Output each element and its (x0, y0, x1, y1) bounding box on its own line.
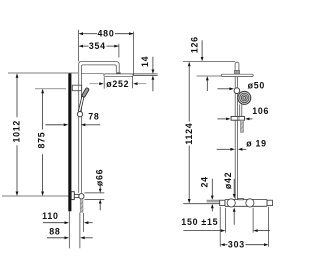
svg-text:ø252: ø252 (106, 79, 129, 89)
svg-text:875: 875 (37, 132, 47, 149)
extension lines 150±15 (224, 208, 226, 233)
mixer bar valve bumps (227, 199, 235, 207)
head stem (side view) (234, 62, 239, 74)
dimension ø42 (223, 172, 236, 225)
hose stub below bracket (hatched) (240, 120, 243, 132)
supply stub lines (207, 200, 220, 202)
mixing valve (front view) (71, 192, 84, 200)
extension line valve centre (83, 213, 85, 232)
shower head disc (front view) (104, 74, 133, 76)
hand shower holder knob (234, 88, 240, 94)
wall bracket (side view) (231, 116, 244, 120)
svg-text:1124: 1124 (184, 123, 194, 145)
svg-text:303: 303 (228, 240, 245, 250)
dimension 354 (79, 41, 119, 51)
dimension 126 (190, 36, 209, 91)
wire top reference line (1012 datum) (8, 72, 78, 74)
dimension 1124 (184, 62, 194, 204)
wire head bottom reference line (197, 75, 222, 77)
dimension 24 (199, 176, 213, 211)
dimension 480 (79, 29, 134, 39)
dimension 1012 (12, 73, 22, 196)
dimension 110 (42, 211, 93, 224)
extension line wall centre (68, 212, 70, 249)
valve outlet stub (hatched) (80, 199, 83, 212)
dimension 303 (220, 240, 268, 250)
svg-text:78: 78 (88, 112, 99, 122)
mixer bar body (225, 200, 267, 207)
shower head connector nut (116, 72, 120, 74)
dimension ø19 (217, 139, 267, 151)
shower arm (79, 62, 120, 73)
riser pipe (79, 64, 82, 193)
glide bar holder bracket (72, 85, 81, 91)
dimension ø66 (85, 169, 105, 211)
svg-text:480: 480 (98, 29, 115, 39)
label ø50 (217, 80, 265, 90)
svg-text:ø42: ø42 (223, 172, 233, 189)
svg-text:126: 126 (190, 36, 200, 53)
hand shower (78, 87, 89, 111)
shower head disc (side view) (221, 74, 253, 76)
mixer bar left cap (220, 200, 225, 205)
wire supply datum line (183, 203, 219, 205)
dimension 875 (37, 89, 47, 196)
vertical pipe (side view) (235, 77, 237, 200)
extension lines 303 (219, 207, 221, 247)
dimension 106 (217, 106, 269, 120)
svg-text:354: 354 (89, 41, 106, 51)
extension line 480/354 left (78, 30, 80, 62)
wire bottom reference line (valve datum) (2, 195, 69, 197)
extension line 480 right (133, 32, 135, 76)
svg-text:24: 24 (199, 176, 209, 187)
wire 875 reference line (35, 88, 66, 90)
dimension ø252 (90, 77, 147, 89)
svg-text:110: 110 (42, 211, 58, 221)
svg-text:ø50: ø50 (248, 80, 265, 90)
dimension 150 ±15 (181, 217, 269, 232)
dimension 88 (47, 226, 93, 239)
svg-text:106: 106 (252, 106, 269, 116)
mixer top connector bump (238, 199, 244, 200)
dimension 14 (head thickness) (134, 56, 158, 91)
hose from hand shower (240, 105, 242, 117)
svg-text:1012: 1012 (12, 120, 22, 143)
label 78 (45, 112, 100, 127)
svg-text:ø66: ø66 (95, 169, 105, 186)
svg-text:150 ±15: 150 ±15 (181, 217, 218, 227)
extension line 354 right (118, 44, 120, 58)
wall (68, 73, 71, 211)
svg-text:88: 88 (49, 226, 60, 236)
extension line pipe centre (79, 213, 81, 249)
wire top reference line (183, 61, 235, 63)
mixer bar right cap (267, 200, 272, 205)
svg-text:ø 19: ø 19 (246, 139, 267, 149)
hose connector circle (77, 112, 82, 117)
svg-text:14: 14 (140, 56, 150, 67)
hand shower head (side view, spiral face) (238, 91, 251, 104)
